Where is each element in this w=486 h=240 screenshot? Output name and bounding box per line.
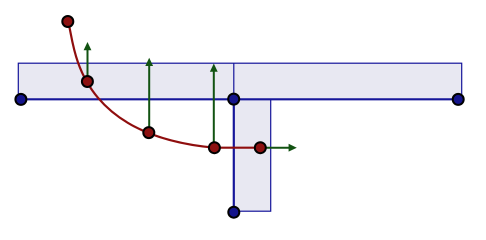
node: bottom end of vertical edge <box>228 207 239 218</box>
green arrow 2 (vertical) <box>145 58 153 132</box>
fiber divider line over junction <box>233 63 235 99</box>
red point 1 (curve start, above strip) <box>62 16 73 27</box>
red point 3 <box>143 127 154 138</box>
node: junction of edges <box>228 94 239 105</box>
green arrow 4 (horizontal, at last curve point) <box>260 144 297 152</box>
horizontal strip (neighborhood of horizontal edge) <box>18 63 461 99</box>
vertical strip (neighborhood of vertical edge) <box>234 99 271 211</box>
red point 5 (on vertical strip) <box>255 142 266 153</box>
vertical edge line <box>233 99 235 212</box>
red point 4 <box>209 142 220 153</box>
node: right end of horizontal edge <box>453 94 464 105</box>
red curve (trajectory) <box>68 22 260 148</box>
horizontal edge line <box>21 98 458 100</box>
red point 2 (on horizontal strip) <box>82 76 93 87</box>
node: left end of horizontal edge <box>15 94 26 105</box>
green arrow 3 (vertical) <box>210 64 218 148</box>
green arrow 1 (vertical, at first curve point on strip) <box>84 42 92 82</box>
